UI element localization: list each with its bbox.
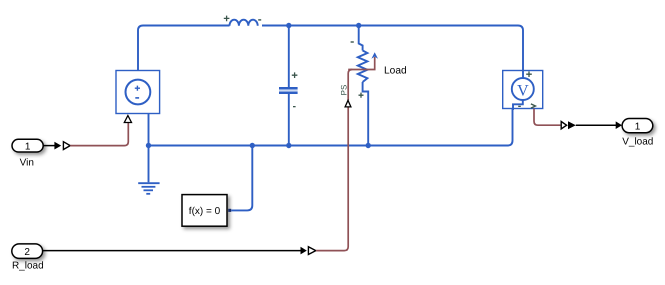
PS wire Vin to source <box>70 123 128 146</box>
wire top bus: inductor to top-right corner <box>262 26 523 71</box>
converter port triangle V_load <box>561 122 566 129</box>
input port 1 oval <box>12 139 43 152</box>
wire sensor internal bottom lead <box>513 100 523 110</box>
svg-text:V_load: V_load <box>622 136 653 147</box>
controlled voltage source U1 body <box>116 71 160 114</box>
voltage source minus symbol <box>135 97 139 99</box>
solver block f(x)=0 <box>182 195 227 227</box>
capacitor plus label <box>292 72 298 78</box>
wire load branch upper lead <box>359 26 363 51</box>
variable resistor control arrow shaft <box>348 57 375 70</box>
svg-text:f(x) = 0: f(x) = 0 <box>189 206 221 217</box>
node junction capacitor bottom <box>286 143 291 148</box>
PS wire above load triangle <box>348 70 352 101</box>
input port 2 oval <box>12 244 43 259</box>
svg-text:R_load: R_load <box>12 260 44 271</box>
node junction top capacitor <box>286 23 291 28</box>
svg-text:Vin: Vin <box>20 157 34 168</box>
signal arrowhead at output port <box>616 121 622 129</box>
converter port triangle Vin <box>63 142 70 150</box>
output port 1 oval <box>622 119 653 133</box>
solver block port square <box>228 209 231 212</box>
resistor minus label <box>351 41 354 42</box>
sensor minus label <box>518 106 521 107</box>
signal arrowhead R_load <box>301 247 307 255</box>
wire capacitor branch lower <box>288 94 290 146</box>
ground electrical reference <box>138 183 159 194</box>
wire bottom bus <box>149 109 513 146</box>
converter port triangle R_load <box>308 247 315 255</box>
node junction solver <box>250 143 255 148</box>
voltage source plus symbol <box>135 86 140 91</box>
wire ground lead <box>148 146 150 183</box>
variable resistor control arrowhead <box>371 52 378 58</box>
sensor PS output marker <box>531 104 536 108</box>
signal line Vin <box>43 145 56 147</box>
svg-text:2: 2 <box>24 247 30 258</box>
svg-text:PS: PS <box>340 85 349 96</box>
node junction source-ground <box>146 143 151 148</box>
wire top bus: voltage source top to inductor <box>138 26 230 71</box>
inductor L1 winding <box>230 20 258 26</box>
node junction load bottom <box>366 143 371 148</box>
wire load branch lower lead <box>363 82 369 146</box>
PS wire sensor to output <box>534 109 560 126</box>
svg-text:Load: Load <box>384 66 407 77</box>
wire capacitor branch upper <box>288 26 290 88</box>
inductor plus label <box>224 16 230 22</box>
sensor plus label <box>526 71 532 77</box>
svg-text:1: 1 <box>635 121 641 132</box>
resistor plus label <box>359 93 364 98</box>
wire sensor top lead <box>522 71 524 79</box>
inductor minus label <box>258 19 261 20</box>
node junction top load <box>356 23 361 28</box>
svg-text:V: V <box>517 82 529 99</box>
signal arrowhead Vin <box>54 142 61 150</box>
capacitor C1 plates <box>279 89 298 92</box>
svg-text:1: 1 <box>25 141 31 152</box>
load PS port triangle <box>345 100 351 107</box>
variable resistor Load zigzag <box>358 51 368 83</box>
voltage sensor U2 body <box>503 71 543 109</box>
capacitor minus label <box>293 106 296 107</box>
wire source bottom-right lead <box>148 114 150 146</box>
source PS port triangle <box>124 116 131 123</box>
signal line V_load <box>576 124 617 126</box>
signal line R_load <box>43 250 301 252</box>
wire solver to bus <box>231 146 252 211</box>
signal arrowhead after converter <box>568 121 576 129</box>
PS wire R_load to load resistor <box>316 107 348 250</box>
